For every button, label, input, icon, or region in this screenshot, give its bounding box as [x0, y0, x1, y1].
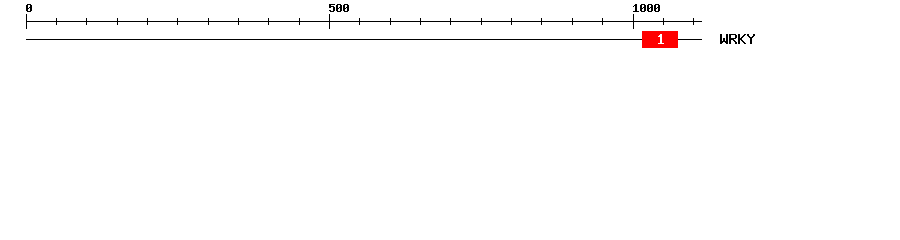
- ruler major tick 500: [329, 14, 330, 29]
- ruler major tick 0: [26, 14, 27, 29]
- ruler minor tick 1100: [693, 18, 694, 25]
- ruler label 1000: [633, 4, 660, 12]
- ruler minor tick 750: [481, 18, 482, 25]
- ruler minor tick 250: [177, 18, 178, 25]
- ruler minor tick 450: [299, 18, 300, 25]
- ruler minor tick 50: [56, 18, 57, 25]
- protein backbone line (right segment): [678, 39, 702, 40]
- ruler label 0: [26, 4, 32, 12]
- ruler minor tick 850: [541, 18, 542, 25]
- ruler axis line: [26, 21, 702, 22]
- ruler minor tick 650: [420, 18, 421, 25]
- ruler minor tick 150: [117, 18, 118, 25]
- ruler minor tick 400: [268, 18, 269, 25]
- WRKY domain box 1: [642, 31, 678, 48]
- ruler minor tick 600: [390, 18, 391, 25]
- domain index label 1 (white): [658, 34, 664, 44]
- ruler minor tick 1050: [663, 18, 664, 25]
- ruler minor tick 900: [572, 18, 573, 25]
- ruler minor tick 350: [238, 18, 239, 25]
- ruler minor tick 700: [450, 18, 451, 25]
- protein domain ruler diagram: [0, 0, 900, 58]
- ruler minor tick 100: [86, 18, 87, 25]
- ruler minor tick 300: [208, 18, 209, 25]
- ruler major tick 1000: [633, 14, 634, 29]
- protein backbone line (left segment): [26, 39, 642, 40]
- domain name WRKY: [720, 34, 755, 44]
- ruler minor tick 800: [511, 18, 512, 25]
- ruler minor tick 550: [359, 18, 360, 25]
- ruler label 500: [329, 4, 349, 12]
- ruler minor tick 200: [147, 18, 148, 25]
- ruler minor tick 950: [602, 18, 603, 25]
